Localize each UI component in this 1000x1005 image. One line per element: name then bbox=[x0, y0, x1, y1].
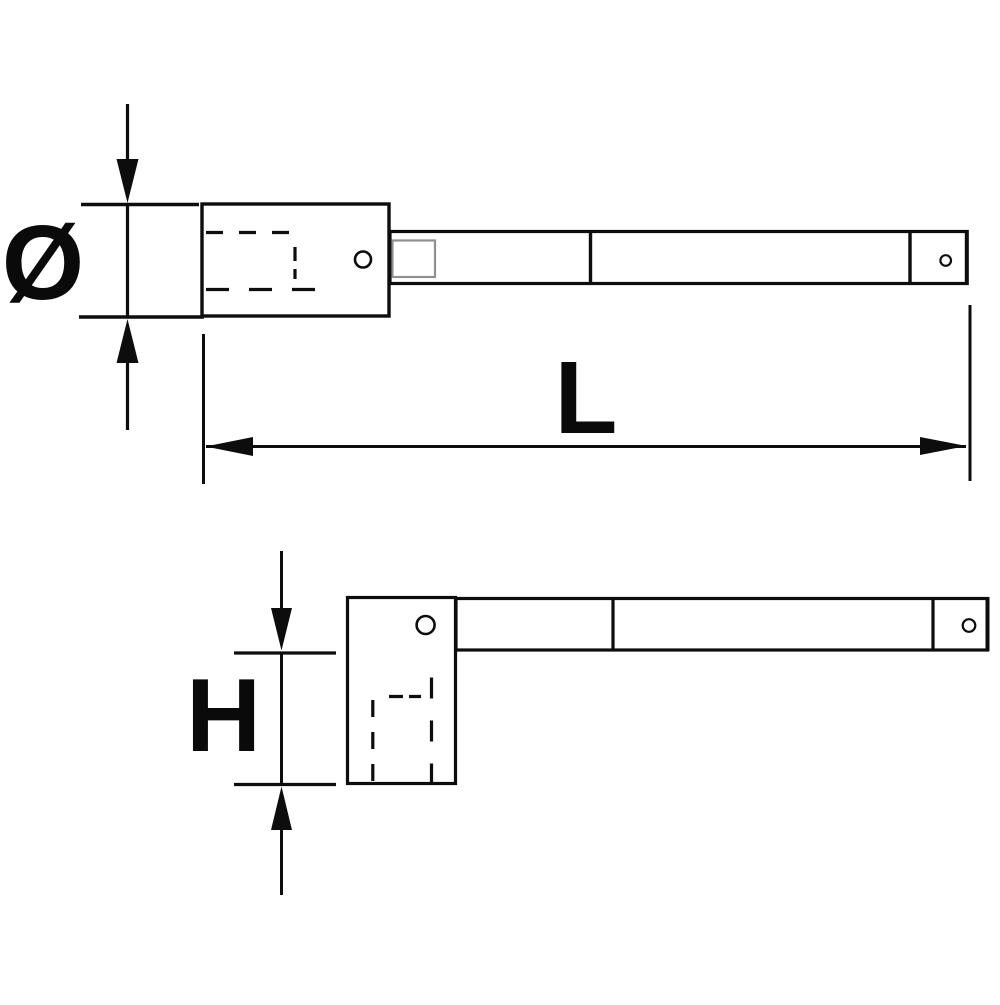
H dimension: between-ticks line bbox=[280, 653, 283, 785]
H dimension: lower arrowhead (up) bbox=[271, 787, 292, 831]
handle bar (side view) bbox=[456, 599, 988, 651]
L dimension: left arrowhead bbox=[206, 437, 254, 456]
pin hole (top view head) bbox=[355, 252, 371, 268]
handle right end cap line (top view) bbox=[965, 230, 969, 285]
diameter dimension: upper tick bbox=[81, 203, 199, 206]
hang hole (top view right end) bbox=[940, 255, 951, 266]
hang hole (side view right end) bbox=[963, 619, 976, 632]
head outline (top view) bbox=[202, 204, 389, 316]
head outline (side view) bbox=[348, 598, 456, 784]
L dimension: right arrowhead bbox=[920, 437, 967, 455]
handle right end cap line (side view) bbox=[986, 597, 990, 651]
hidden line vertical (dashed, top view head) bbox=[293, 247, 296, 279]
H dimension: upper leader line bbox=[280, 551, 283, 612]
L dimension line bbox=[206, 445, 966, 448]
diameter dimension: between-ticks line bbox=[126, 205, 129, 318]
hidden line bottom (dashed, top view head) bbox=[206, 288, 315, 291]
diameter dimension: lower arrowhead (up) bbox=[117, 319, 139, 363]
diameter dimension: lower tick bbox=[79, 315, 204, 318]
H dimension: lower tick bbox=[234, 783, 336, 786]
insert tongue detail (gray rect, top view) bbox=[393, 241, 436, 278]
H dimension: upper tick bbox=[234, 651, 336, 654]
handle segment divider 1 (top view) bbox=[589, 232, 592, 284]
handle segment divider (side view) bbox=[611, 599, 614, 651]
hidden line top (dashed, top view head) bbox=[206, 231, 290, 234]
hidden line horizontal (dashed, side view head) bbox=[389, 695, 421, 698]
handle end segment line (side view) bbox=[931, 599, 934, 651]
svg-text:Ø: Ø bbox=[2, 204, 84, 322]
hidden line left vertical (dashed, side view head) bbox=[371, 700, 374, 784]
pin hole (side view head) bbox=[417, 616, 435, 634]
H dimension: upper arrowhead (down) bbox=[271, 608, 292, 651]
L dimension: left extension line bbox=[202, 334, 205, 484]
handle bar (top view) bbox=[390, 232, 967, 284]
diameter dimension: upper leader line bbox=[126, 104, 129, 165]
L dimension: right extension line bbox=[969, 305, 972, 481]
handle segment divider 2 (top view) bbox=[908, 232, 911, 284]
svg-text:L: L bbox=[555, 340, 618, 455]
hidden line right vertical (dashed, side view head) bbox=[430, 678, 433, 784]
diameter dimension: upper arrowhead (down) bbox=[117, 159, 139, 203]
svg-text:H: H bbox=[186, 658, 261, 774]
H dimension: lower leader line bbox=[280, 825, 283, 895]
diameter dimension: lower leader line bbox=[126, 358, 129, 430]
